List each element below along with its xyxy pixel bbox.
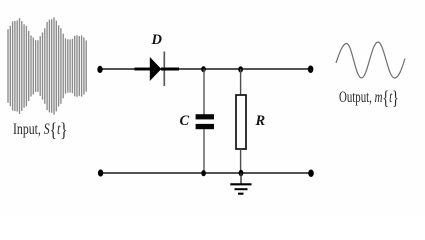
diode D1 triangle [150,57,162,81]
ground bar 1 [230,183,251,185]
label D [152,33,162,47]
ground bar 2 [235,188,248,190]
label Input, S{t} [13,122,68,139]
ground stub [240,173,242,184]
label Output, m{t} [339,90,399,107]
diode D1 cathode bar [163,52,165,87]
label C [180,114,190,128]
node terminal (bottom-right) [308,170,314,177]
node junction resistor top [238,66,243,72]
node terminal (bottom-left) [98,169,103,176]
ground bar 3 [238,193,244,195]
wire resistor branch lower [240,149,242,173]
diode D1 anode lead (thick) [135,68,151,71]
resistor R1 body [236,95,246,149]
node input terminal (top-left) [97,66,102,73]
node junction capacitor top [201,66,206,72]
label R [256,114,266,128]
output sine wave [336,42,405,78]
diode D1 cathode lead (thick) [161,68,179,71]
capacitor C1 top plate [196,114,214,119]
node output terminal (top-right) [308,66,314,73]
wire bottom rail [100,172,311,174]
capacitor C1 bottom plate [196,124,214,129]
wire capacitor branch upper [203,69,205,115]
input AM waveform [8,17,86,114]
wire resistor branch upper [240,69,242,96]
node junction ground [239,170,244,176]
wire top rail [100,68,311,70]
wire capacitor branch lower [203,129,205,173]
node junction capacitor bottom [201,170,206,176]
